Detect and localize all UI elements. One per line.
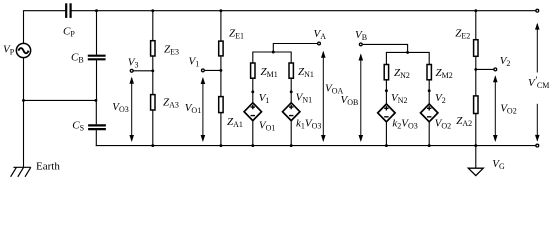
junction top bus ZE1 [219,9,222,12]
wire V2 diamond to bottom [428,122,430,146]
wire VB to tee [363,44,408,52]
impedance ZE3 [151,41,155,56]
arrow VOB [359,54,364,143]
junction mid-left left [22,99,25,102]
wire mid junction to CS [95,100,97,124]
arrow VO1 [201,77,206,142]
arrow VOA [321,51,326,142]
source V1 diamond [244,103,261,121]
impedance ZE1 [219,41,223,56]
wire ZN2 to diamond [385,80,387,104]
source V2 diamond [421,104,438,122]
junction bottom VN2 diamond [385,144,388,147]
arrow VCM [535,23,540,142]
svg-text:Earth: Earth [36,160,60,172]
wire CB chain upper [96,11,98,55]
wire VA to tee [273,44,317,53]
wire ZA2 to bottom [475,114,477,146]
node VB [359,43,362,46]
wire tee bar right [386,52,429,64]
junction V3 row [151,69,154,72]
wire top bus right segment [71,10,538,12]
junction above V2 diamond [428,89,431,92]
junction V2 row [474,68,477,71]
impedance ZN1 [289,63,293,78]
wire ZM2 to diamond [428,80,430,104]
wire left rail upper [23,10,25,43]
wire V2 tick [476,68,494,70]
wire ZE3 to ZA3 [152,57,154,95]
source VN2 diamond [378,104,395,122]
source VN1 diamond [283,103,300,121]
node V2 [494,68,497,71]
capacitor CS [88,125,106,129]
junction bottom V2 diamond [428,144,431,147]
junction V1 row [219,69,222,72]
junction top bus CB [95,9,98,12]
impedance ZA1 [219,97,223,113]
ground earth [11,167,31,177]
wire ZE1 to ZA1 [220,56,222,96]
junction above VN1 diamond [290,90,293,93]
junction above VN2 diamond [385,89,388,92]
wire bottom bus [96,145,538,147]
junction bottom VN1 diamond [290,144,293,147]
node V1 [202,69,205,72]
wire CS to bottom bus [95,129,97,146]
junction bottom ZA3 [151,144,154,147]
node VA [318,42,321,45]
node bottom right [536,144,539,147]
source VP [16,43,30,57]
junction mid-left right [94,99,97,102]
impedance ZA3 [151,95,155,110]
capacitor CB [88,56,106,60]
wire ground stub [475,146,477,169]
wire branch V3 upper [152,11,154,41]
arrow VO3 [129,77,134,142]
wire V3 tick [134,70,153,72]
junction top bus ZE2 [474,9,477,12]
wire ZA3 to bottom [152,111,154,146]
node V3 [130,69,133,72]
junction tee right [406,51,409,54]
impedance ZE2 [474,40,478,57]
junction bottom ZA2 [474,144,477,147]
wire ZM1 to diamond [252,79,254,103]
ground VG triangle [468,168,483,175]
wire left rail lower [23,58,25,168]
impedance ZM1 [251,63,255,78]
wire ZN1 to diamond [290,79,292,103]
impedance ZA2 [474,96,478,114]
wire tee bar left [253,52,291,63]
wire ZA1 to bottom [220,113,222,146]
impedance ZN2 [384,65,388,80]
arrow VO2 [493,75,498,142]
wire CB to mid junction [96,59,98,100]
impedance ZM2 [427,65,431,80]
wire V1 tick [205,69,221,71]
junction tee left [272,51,275,54]
wire V1 diamond to bottom [252,121,254,146]
wire VN1 diamond to bottom [290,121,292,146]
junction top bus ZE3 [151,9,154,12]
capacitor CP [66,3,70,18]
wire branch V2 upper [475,11,477,40]
junction above V1 diamond [251,90,254,93]
wire branch V1 upper [220,11,222,41]
wire ZE2 to ZA2 [475,57,477,96]
junction bottom V1 diamond [251,144,254,147]
node top right [536,9,539,12]
wire VN2 diamond to bottom [385,122,387,146]
junction bottom ZA1 [219,144,222,147]
wire top bus left segment [24,10,67,12]
wire mid-left horizontal [24,99,96,101]
